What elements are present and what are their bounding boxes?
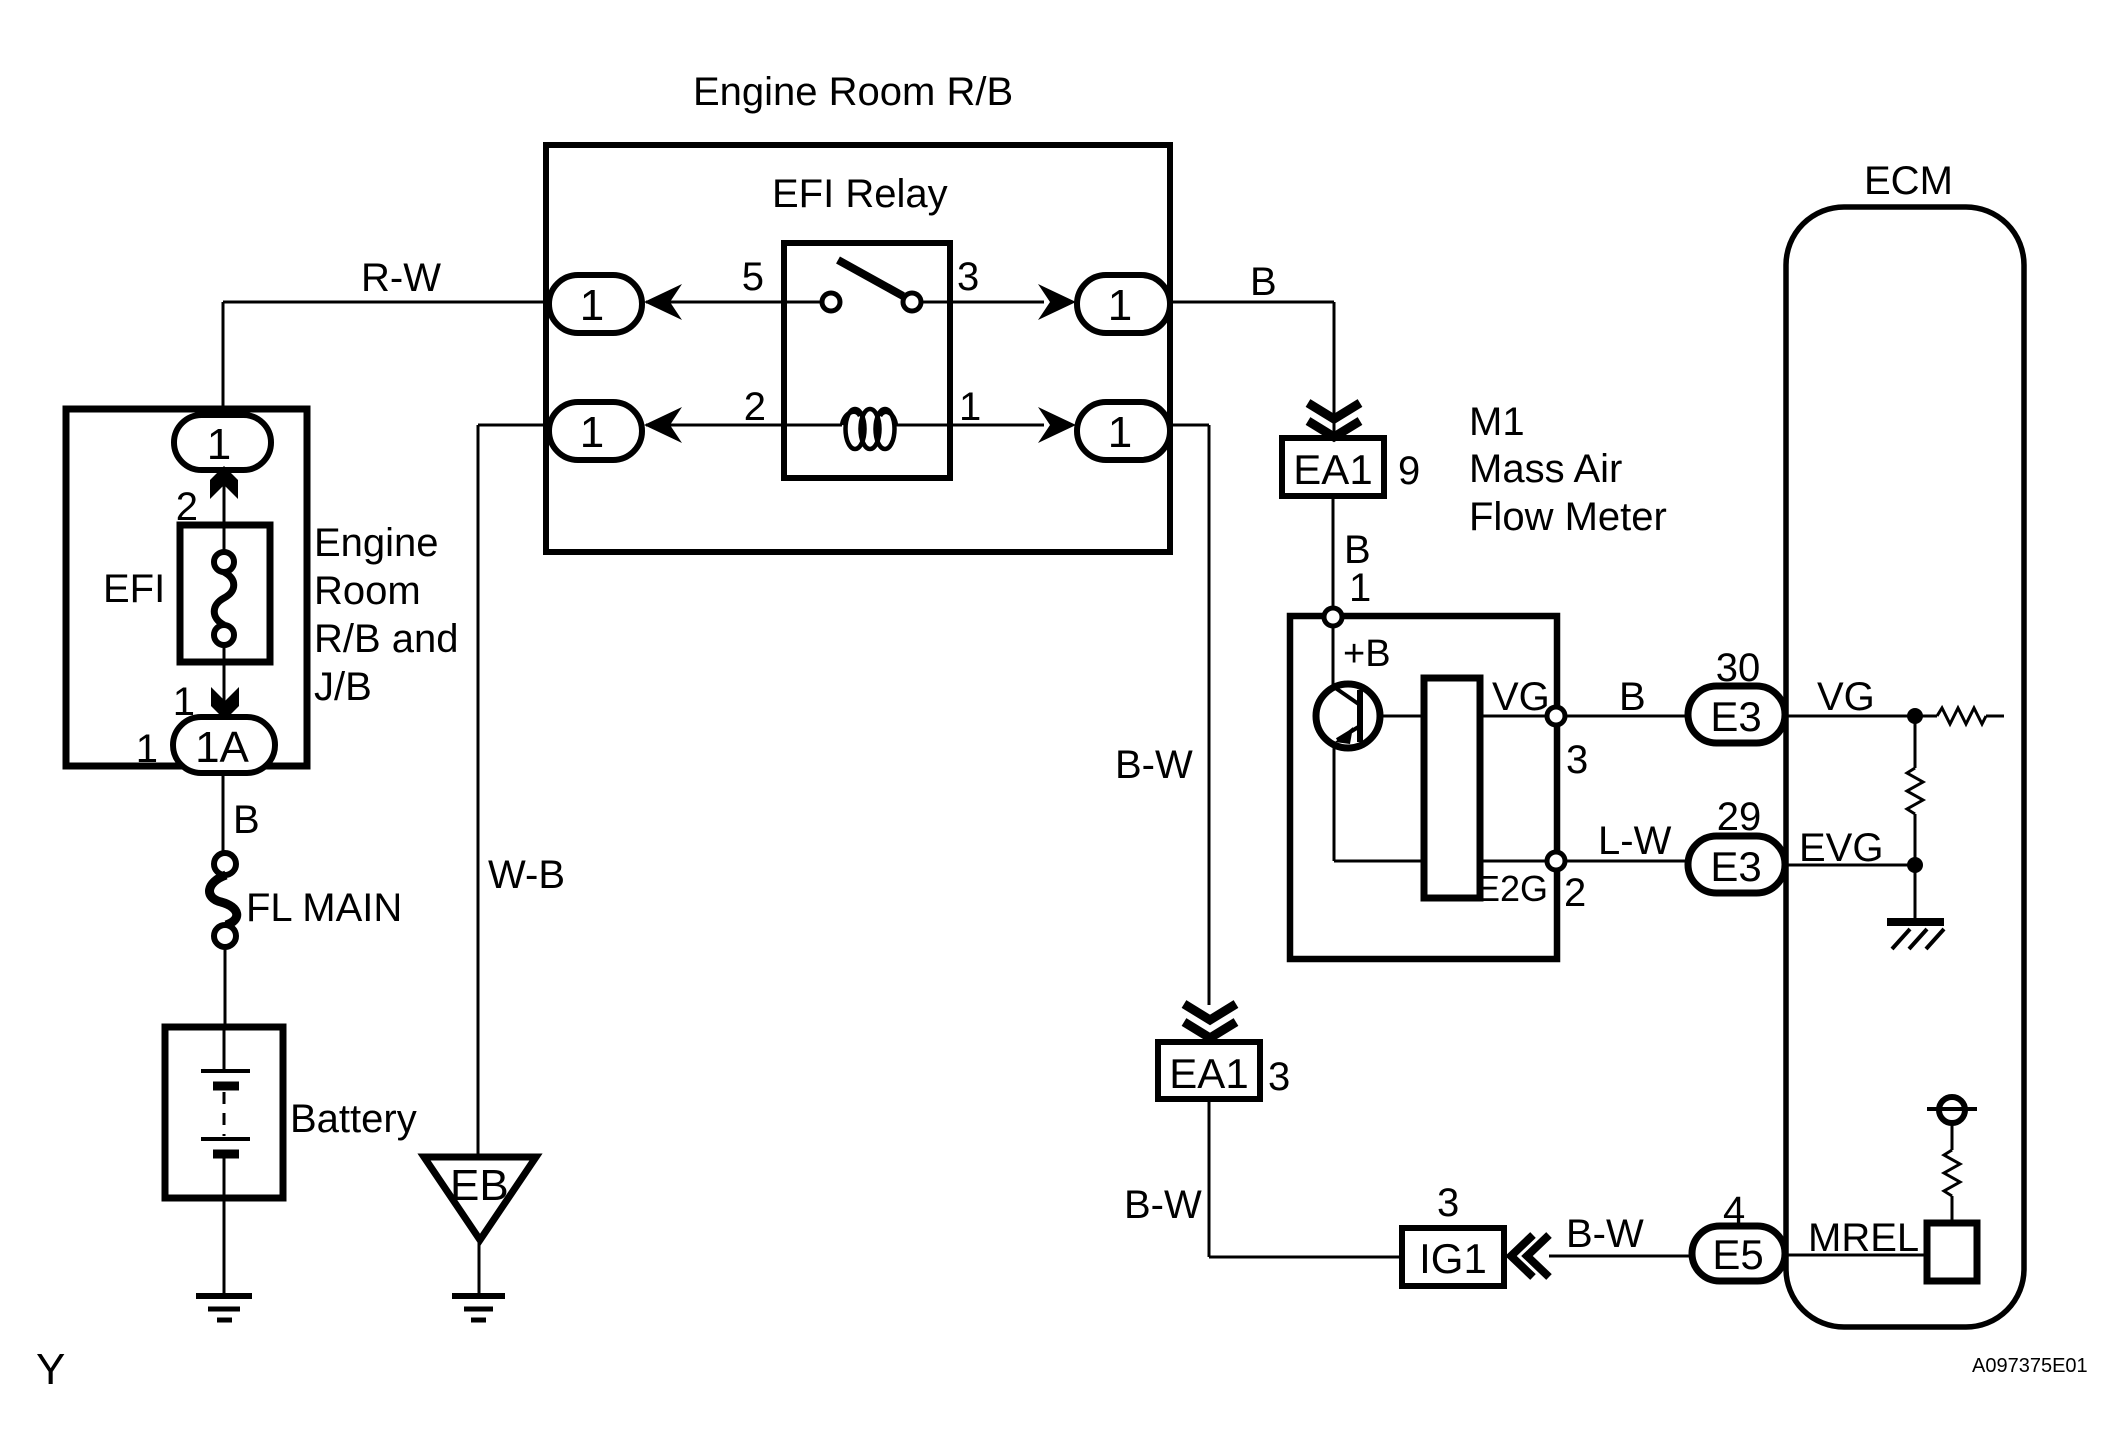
svg-text:J/B: J/B [314,665,372,709]
svg-text:1: 1 [580,281,604,330]
svg-text:B-W: B-W [1124,1183,1202,1227]
fuse element: bottom terminal circle [214,625,234,645]
connector oval 1 (top of EFI fuse) [174,415,271,470]
resistor (vertical, MREL pull-up) [1944,1150,1960,1196]
junction node EVG [1907,857,1923,873]
shield chevrons at IG1 [1511,1235,1549,1277]
svg-text:3: 3 [1566,738,1588,782]
wire: EVG inside ECM [1785,864,1915,867]
svg-text:1: 1 [1349,566,1371,610]
junction node VG [1907,708,1923,724]
wire: R-W from junction to Engine Room R/B box [223,302,547,416]
svg-text:2: 2 [744,385,766,429]
fusible link FL MAIN: bottom circle [214,925,236,947]
arrow down into oval 1A [211,687,239,720]
svg-text:EB: EB [450,1161,509,1210]
ground (battery) [196,1293,252,1299]
relay switch contact left [822,293,840,311]
MREL driver block (square) [1927,1223,1977,1281]
svg-text:Engine: Engine [314,521,439,565]
wire: transistor emitter down and to E2G [1334,744,1424,861]
connector EA1 (pin 3) [1158,1042,1260,1099]
connector E5 (pin 4) [1692,1226,1785,1281]
svg-text:1: 1 [136,727,158,771]
Engine Room R/B box [546,145,1170,552]
wire: transistor collector to sensing element [1380,715,1424,718]
svg-text:VG: VG [1817,675,1875,719]
svg-text:R/B and: R/B and [314,617,459,661]
wire: VG node down to resistor [1914,716,1917,768]
battery plate short bottom [213,1150,239,1159]
svg-text:3: 3 [1268,1055,1290,1099]
connector E3 (pin 30) [1688,686,1785,743]
svg-text:29: 29 [1717,795,1762,839]
wire: VG inside ECM [1785,715,1937,718]
fuse element: squiggle [214,572,234,625]
svg-text:IG1: IG1 [1419,1235,1487,1282]
wire: B from top-right oval to mass air flow meter [1170,302,1334,440]
svg-text:EFI: EFI [103,567,165,611]
fuse element: top terminal circle [214,552,234,572]
shield chevrons into EA1 (top) [1308,403,1360,437]
svg-text:MREL: MREL [1808,1216,1919,1260]
wire: L-W from E2G to E3 [1565,860,1688,863]
relay switch contact right [903,293,921,311]
svg-text:A097375E01: A097375E01 [1972,1355,2088,1377]
fuse EFI box [180,525,270,662]
resistor (vertical, between VG and EVG) [1907,768,1923,814]
connector EA1 (pin 9) [1282,438,1384,496]
battery box [165,1027,283,1198]
svg-text:5: 5 [742,255,764,299]
svg-text:Mass Air: Mass Air [1469,447,1622,491]
wire: B-W from bottom-right oval down to EA1 [1170,425,1209,1005]
svg-text:Flow Meter: Flow Meter [1469,495,1667,539]
arrow left into bottom-left oval [644,407,682,443]
sensing element (vertical rectangle) [1424,678,1480,898]
connector oval 1 (bottom-right in box) [1077,402,1170,460]
svg-text:E3: E3 [1710,693,1761,740]
svg-text:ECM: ECM [1864,159,1953,203]
resistor (horizontal, VG) [1937,708,1986,724]
svg-text:E5: E5 [1712,1231,1763,1278]
wire: +B down to transistor [1332,626,1335,688]
wire: B from VG node to E3 [1565,715,1688,718]
svg-text:B-W: B-W [1566,1212,1644,1256]
svg-text:M1: M1 [1469,400,1525,444]
chassis ground (ECM internal) [1887,918,1944,926]
wire: EA1 to MAF node [1332,496,1335,616]
svg-text:VG: VG [1492,675,1550,719]
svg-text:B-W: B-W [1115,743,1193,787]
connector E3 (pin 29) [1688,836,1785,893]
svg-text:Engine Room R/B: Engine Room R/B [693,70,1013,114]
wire: FL MAIN to battery [224,947,227,1027]
ground point EB triangle [424,1157,536,1240]
node VG pin 3 [1547,707,1565,725]
relay coil [842,412,860,425]
supply terminal (circle with bar) [1939,1097,1965,1123]
svg-text:EFI Relay: EFI Relay [772,172,948,216]
battery plate long top [201,1069,250,1073]
svg-text:1A: 1A [195,723,249,772]
wire: EB to ground [478,1240,481,1296]
wire: EVG node to chassis ground [1914,865,1917,919]
battery plate short top [213,1082,239,1091]
connector oval 1 (bottom-left in box) [549,402,642,460]
wire: B from 1A to FL MAIN [222,771,225,853]
EFI relay box [784,243,950,478]
wire: relay row 2 (coil) [646,424,1044,427]
svg-text:EA1: EA1 [1293,446,1372,493]
wire: relay row 1 (contacts) [646,301,1044,304]
wire: resistor to EVG node [1914,814,1917,861]
wire: resistor to ECM edge [1986,715,2004,718]
relay switch blade [838,260,903,296]
fusible link FL MAIN: wavy element [210,875,237,925]
battery dashed middle [223,1092,226,1136]
node: +B terminal [1324,608,1342,626]
wire: sensing element to VG node [1480,715,1553,718]
wire: battery to ground [223,1198,226,1296]
connector oval 1 (top-left in box) [549,275,642,333]
svg-text:W-B: W-B [488,853,565,897]
svg-text:3: 3 [957,255,979,299]
svg-text:B: B [1619,675,1646,719]
svg-text:E2G: E2G [1476,868,1548,909]
arrow right into bottom-right oval [1038,407,1076,443]
wire: B-W from chevrons to E5 [1549,1255,1692,1258]
svg-text:1: 1 [1108,281,1132,330]
wire: MREL inside ECM [1785,1254,1927,1257]
node E2G pin 2 [1547,852,1565,870]
svg-text:Y: Y [36,1345,65,1394]
svg-text:1: 1 [207,420,231,469]
battery internal wire top [223,1027,226,1069]
arrow up into oval 1 [210,466,238,499]
svg-text:FL MAIN: FL MAIN [246,886,402,930]
fusible link FL MAIN: top circle [214,853,236,875]
connector IG1 [1402,1228,1504,1286]
ECM block [1786,207,2024,1327]
connector oval 1 (top-right in box) [1077,275,1170,333]
svg-text:9: 9 [1398,449,1420,493]
wire: resistor to supply terminal [1951,1124,1954,1150]
svg-text:EVG: EVG [1799,826,1883,870]
svg-text:L-W: L-W [1598,819,1672,863]
battery plate long bottom [201,1137,250,1141]
shield chevrons into EA1 (bottom) [1184,1004,1236,1038]
Engine Room R/B and J/B block (left) [66,409,307,766]
svg-text:EA1: EA1 [1169,1050,1248,1097]
svg-text:+B: +B [1343,633,1391,675]
svg-text:2: 2 [1564,871,1586,915]
wire: sensing element to E2G node [1480,860,1553,863]
svg-text:B: B [233,798,260,842]
svg-text:Room: Room [314,569,421,613]
mass air flow meter box M1 [1290,616,1557,959]
ground (EB) [452,1293,505,1299]
connector oval 1A [173,717,275,773]
svg-text:3: 3 [1437,1181,1459,1225]
wire: through EFI fuse [223,469,226,719]
arrow right into top-right oval [1038,284,1076,320]
svg-text:1: 1 [959,385,981,429]
svg-text:B: B [1250,260,1277,304]
battery internal wire bottom [223,1158,226,1198]
svg-text:1: 1 [1108,408,1132,457]
wire: EA1 down and right to IG1 [1209,1099,1402,1257]
wire: W-B from relay oval 1 down to EB [478,425,549,1156]
arrow left into top-left oval [644,284,682,320]
wire: square up to resistor [1951,1196,1954,1223]
svg-text:1: 1 [580,408,604,457]
transistor Q (power transistor) [1316,684,1380,748]
svg-text:R-W: R-W [361,256,441,300]
svg-text:Battery: Battery [290,1097,417,1141]
svg-text:E3: E3 [1710,843,1761,890]
